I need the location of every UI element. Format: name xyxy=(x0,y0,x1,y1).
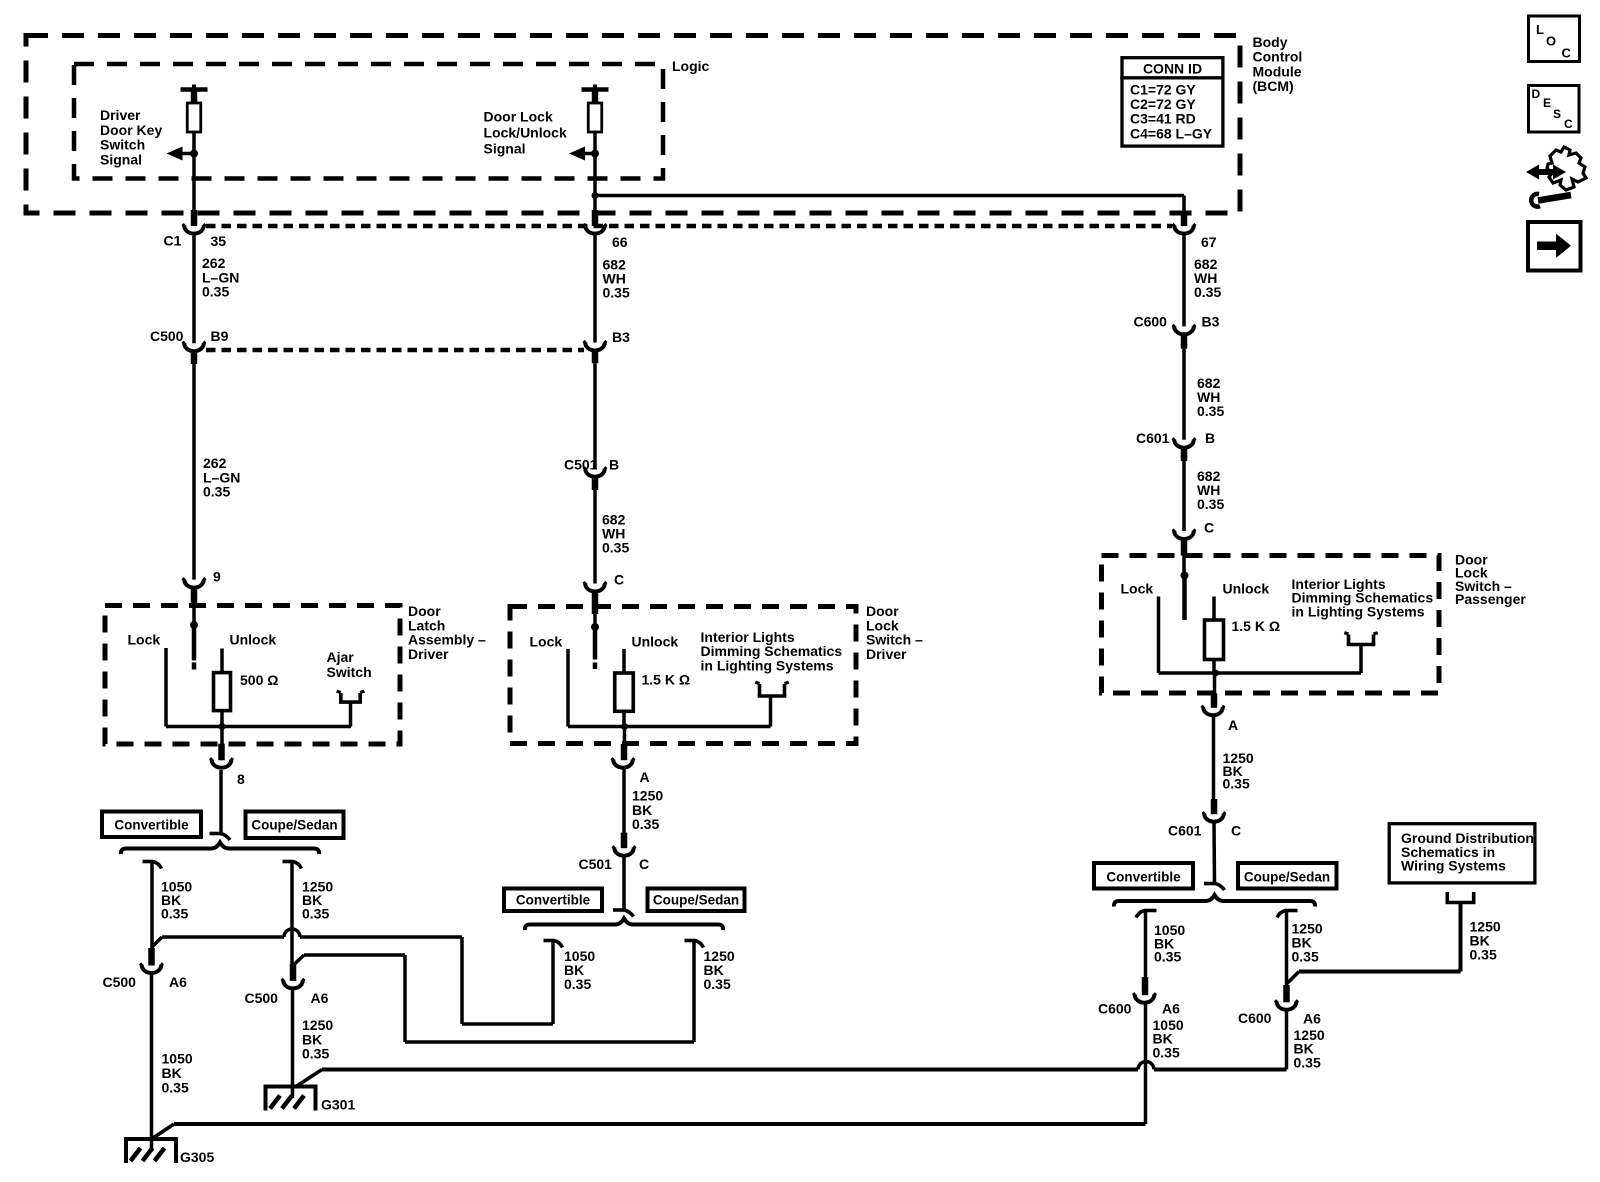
svg-text:Signal: Signal xyxy=(484,141,526,157)
svg-text:8: 8 xyxy=(237,771,245,787)
svg-text:C500: C500 xyxy=(150,328,184,344)
svg-text:Convertible: Convertible xyxy=(516,893,591,908)
svg-text:A: A xyxy=(640,769,650,785)
svg-text:B3: B3 xyxy=(612,329,630,345)
svg-text:C: C xyxy=(1564,117,1573,131)
svg-text:C4=68 L–GY: C4=68 L–GY xyxy=(1130,125,1213,141)
svg-text:C601: C601 xyxy=(1136,430,1170,446)
svg-text:Driver: Driver xyxy=(866,646,907,662)
svg-text:Coupe/Sedan: Coupe/Sedan xyxy=(653,893,739,908)
svg-text:Control: Control xyxy=(1253,49,1303,65)
svg-text:0.35: 0.35 xyxy=(603,285,630,301)
svg-text:0.35: 0.35 xyxy=(602,540,629,556)
svg-text:0.35: 0.35 xyxy=(162,1079,189,1095)
svg-text:0.35: 0.35 xyxy=(704,976,731,992)
svg-text:A6: A6 xyxy=(169,974,187,990)
svg-text:C1: C1 xyxy=(164,233,182,249)
svg-text:A6: A6 xyxy=(1303,1011,1321,1027)
svg-text:C600: C600 xyxy=(1134,314,1168,330)
svg-text:0.35: 0.35 xyxy=(1294,1054,1321,1070)
svg-text:0.35: 0.35 xyxy=(1223,776,1250,792)
svg-text:C500: C500 xyxy=(245,990,279,1006)
svg-text:Logic: Logic xyxy=(672,58,710,74)
svg-text:A6: A6 xyxy=(1162,1001,1180,1017)
svg-text:0.35: 0.35 xyxy=(302,906,329,922)
svg-text:1.5 K Ω: 1.5 K Ω xyxy=(1232,618,1281,634)
svg-text:Unlock: Unlock xyxy=(1223,581,1270,597)
svg-text:0.35: 0.35 xyxy=(1197,403,1224,419)
svg-text:B: B xyxy=(609,457,619,473)
svg-text:C600: C600 xyxy=(1238,1010,1272,1026)
svg-text:Convertible: Convertible xyxy=(1106,870,1181,885)
svg-text:Lock/Unlock: Lock/Unlock xyxy=(484,125,567,141)
svg-text:CONN ID: CONN ID xyxy=(1143,61,1202,77)
svg-text:A: A xyxy=(1228,717,1238,733)
svg-text:Unlock: Unlock xyxy=(230,632,277,648)
svg-text:C3=41 RD: C3=41 RD xyxy=(1130,111,1196,127)
svg-text:9: 9 xyxy=(213,569,221,585)
svg-text:Body: Body xyxy=(1253,34,1288,50)
svg-text:O: O xyxy=(1546,34,1556,49)
svg-text:in Lighting Systems: in Lighting Systems xyxy=(1292,603,1425,619)
svg-text:G301: G301 xyxy=(321,1097,355,1113)
svg-text:C: C xyxy=(639,856,649,872)
svg-text:Door Key: Door Key xyxy=(100,122,162,138)
svg-text:Lock: Lock xyxy=(530,634,563,650)
svg-text:E: E xyxy=(1543,96,1551,110)
svg-text:Signal: Signal xyxy=(100,151,142,167)
svg-text:500 Ω: 500 Ω xyxy=(240,672,278,688)
svg-text:A6: A6 xyxy=(311,990,329,1006)
svg-text:0.35: 0.35 xyxy=(632,816,659,832)
svg-text:0.35: 0.35 xyxy=(564,976,591,992)
svg-text:0.35: 0.35 xyxy=(1153,1044,1180,1060)
svg-text:0.35: 0.35 xyxy=(1197,496,1224,512)
svg-text:L: L xyxy=(1536,22,1544,37)
svg-text:C: C xyxy=(1231,823,1241,839)
svg-text:C601: C601 xyxy=(1168,823,1202,839)
svg-text:0.35: 0.35 xyxy=(161,906,188,922)
svg-text:in Lighting Systems: in Lighting Systems xyxy=(701,657,834,673)
svg-text:Switch: Switch xyxy=(100,137,145,153)
svg-text:1.5 K Ω: 1.5 K Ω xyxy=(642,672,691,688)
svg-text:Switch: Switch xyxy=(327,664,372,680)
svg-text:C: C xyxy=(1204,520,1214,536)
svg-text:D: D xyxy=(1532,87,1541,101)
svg-text:B: B xyxy=(1205,430,1215,446)
svg-text:Driver: Driver xyxy=(408,646,449,662)
svg-text:C1=72 GY: C1=72 GY xyxy=(1130,82,1196,98)
svg-text:C600: C600 xyxy=(1098,1001,1132,1017)
svg-text:0.35: 0.35 xyxy=(1154,949,1181,965)
svg-text:G305: G305 xyxy=(180,1149,214,1165)
svg-text:C: C xyxy=(1562,46,1572,61)
svg-text:(BCM): (BCM) xyxy=(1253,78,1294,94)
svg-text:Ajar: Ajar xyxy=(327,649,355,665)
svg-text:Coupe/Sedan: Coupe/Sedan xyxy=(1244,870,1330,885)
svg-text:B3: B3 xyxy=(1202,314,1220,330)
svg-text:C500: C500 xyxy=(103,974,137,990)
svg-text:Wiring Systems: Wiring Systems xyxy=(1401,858,1506,874)
svg-text:Coupe/Sedan: Coupe/Sedan xyxy=(251,818,337,833)
svg-text:S: S xyxy=(1553,107,1561,121)
svg-text:67: 67 xyxy=(1201,234,1217,250)
svg-text:C2=72 GY: C2=72 GY xyxy=(1130,96,1196,112)
svg-text:Module: Module xyxy=(1253,63,1302,79)
svg-text:B9: B9 xyxy=(211,328,229,344)
svg-text:Door Lock: Door Lock xyxy=(484,109,553,125)
svg-text:Driver: Driver xyxy=(100,107,141,123)
svg-text:C: C xyxy=(614,572,624,588)
svg-text:Convertible: Convertible xyxy=(114,818,189,833)
svg-text:66: 66 xyxy=(612,234,628,250)
svg-text:0.35: 0.35 xyxy=(203,484,230,500)
svg-text:0.35: 0.35 xyxy=(202,284,229,300)
svg-text:0.35: 0.35 xyxy=(1470,947,1497,963)
svg-text:0.35: 0.35 xyxy=(302,1046,329,1062)
svg-text:Lock: Lock xyxy=(1121,581,1154,597)
svg-text:C501: C501 xyxy=(579,856,613,872)
svg-text:35: 35 xyxy=(211,233,227,249)
svg-text:C501: C501 xyxy=(564,457,598,473)
svg-text:Passenger: Passenger xyxy=(1455,591,1526,607)
svg-text:0.35: 0.35 xyxy=(1292,949,1319,965)
svg-text:Unlock: Unlock xyxy=(632,634,679,650)
svg-text:0.35: 0.35 xyxy=(1194,284,1221,300)
svg-text:Lock: Lock xyxy=(128,632,161,648)
